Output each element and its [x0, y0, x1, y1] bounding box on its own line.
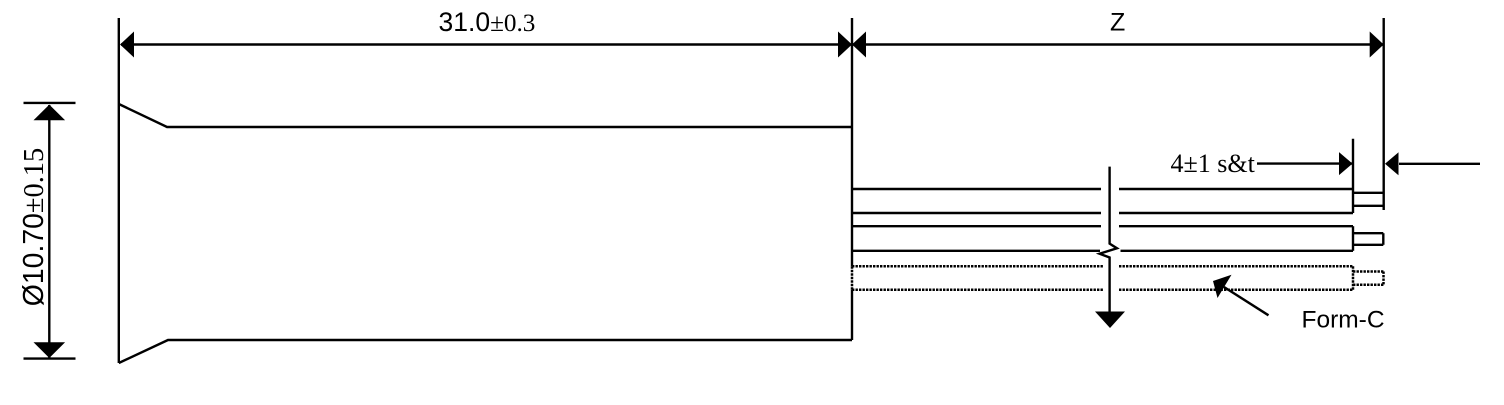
- lead 2 right edge: [1352, 226, 1354, 251]
- svg-text:4±1 s&t: 4±1 s&t: [1171, 149, 1256, 178]
- body outline top: [119, 104, 852, 127]
- form-C tab dashed top: [1353, 272, 1384, 285]
- arrowhead 4±1 right: [1385, 152, 1399, 175]
- svg-text:Form-C: Form-C: [1302, 307, 1385, 334]
- form-C lead right step dashed edge: [1352, 266, 1355, 290]
- svg-text:Ø10.70±0.15: Ø10.70±0.15: [18, 148, 50, 306]
- lead 2 bottom line: [852, 250, 1353, 252]
- dimension line 4±1 left part: [1257, 162, 1352, 164]
- lead 2 tab right edge: [1382, 233, 1384, 245]
- arrowhead 4±1 left: [1339, 152, 1353, 175]
- form-C lead top dashed line: [852, 265, 1353, 268]
- arrowhead diameter bottom: [34, 342, 66, 358]
- diameter dimension bottom tick: [24, 357, 76, 359]
- extension line / body left face: [118, 18, 120, 363]
- arrowhead Form-C leader: [1213, 275, 1232, 298]
- lead 1 bottom line: [852, 212, 1353, 214]
- lead 1 top line: [852, 188, 1353, 190]
- dimension line Z: [853, 43, 1383, 45]
- body right edge lower: [851, 290, 853, 340]
- form-C lead left dashed edge: [851, 266, 854, 290]
- arrowhead Z right: [1370, 32, 1384, 58]
- arrowhead 31.0 left: [120, 32, 134, 58]
- break line with zigzag: [1100, 167, 1118, 312]
- form-C tab dashed right edge: [1382, 272, 1385, 285]
- lead 1 tab: [1353, 193, 1383, 206]
- arrowhead 31.0 right: [838, 32, 852, 58]
- arrowhead diameter top: [34, 105, 66, 121]
- arrowhead Z left: [852, 32, 866, 58]
- diameter dimension top tick: [24, 102, 76, 104]
- svg-text:31.0±0.3: 31.0±0.3: [439, 7, 536, 37]
- dimension line 4±1 right part: [1399, 163, 1480, 165]
- body right edge upper / Z extension line: [851, 18, 853, 266]
- Form-C leader line: [1224, 287, 1269, 315]
- lead 2 tab: [1353, 233, 1383, 245]
- svg-text:Z: Z: [1110, 9, 1125, 37]
- lead 2 top line: [852, 225, 1353, 227]
- body outline bottom: [119, 340, 852, 363]
- lead 1 right edge / 4±1 extension line: [1352, 139, 1354, 213]
- arrowhead break bottom: [1095, 312, 1125, 329]
- diameter dimension line: [48, 105, 50, 358]
- form-C lead bottom dashed line: [852, 289, 1353, 292]
- dimension line 31.0: [121, 43, 851, 45]
- right extension line of Z: [1382, 18, 1384, 210]
